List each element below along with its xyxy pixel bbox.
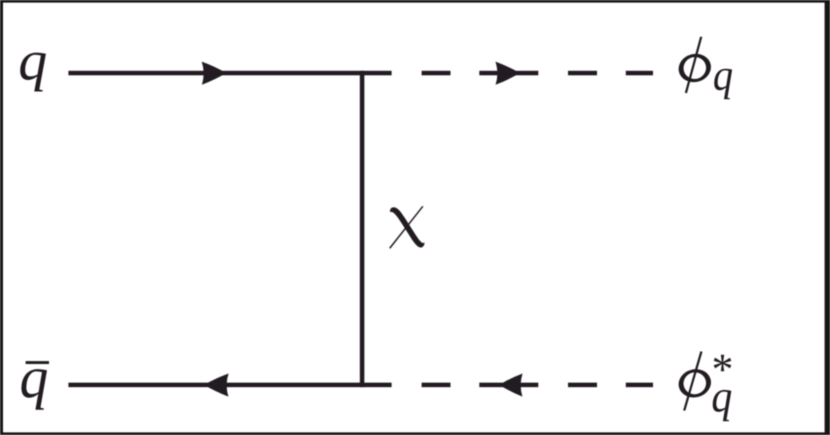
label phi_q^*: phi slash stroke	[683, 351, 702, 411]
label phi_q: phi slash stroke	[685, 37, 703, 94]
label phi_q: phi bowl ring (top-right), tilted CM-style	[676, 50, 714, 85]
label q (incoming quark, top-left)	[20, 53, 46, 92]
label chi (dark-matter propagator): thick stroke	[390, 207, 424, 247]
wire: incoming quark line q (top, solid)	[68, 71, 391, 76]
label q-bar: q glyph (incoming antiquark, bottom-left)	[21, 369, 47, 410]
label chi: thin stroke	[389, 206, 423, 249]
arrow on bottom quark line (points left)	[204, 373, 229, 396]
wire: chi propagator (vertical, solid, t-channel)	[360, 71, 365, 387]
arrow on bottom dashed line (points left)	[499, 373, 522, 396]
label phi_q^* superscript asterisk (bottom-right)	[714, 355, 732, 372]
label phi_q^* subscript q (bottom-right)	[713, 390, 732, 421]
label q-bar: overbar	[26, 361, 49, 364]
label phi_q^*: phi bowl ring (bottom-right), tilted CM-style	[676, 366, 714, 401]
wire: outgoing phi_q* dashed line (bottom)	[422, 383, 653, 388]
label phi_q subscript q (top-right)	[714, 69, 732, 100]
arrow on top quark line (points right)	[202, 62, 227, 85]
arrow on top dashed line (points right)	[495, 62, 520, 85]
wire: outgoing phi_q dashed line (top)	[422, 71, 653, 76]
wire: incoming antiquark line q-bar (bottom, solid)	[68, 383, 391, 388]
